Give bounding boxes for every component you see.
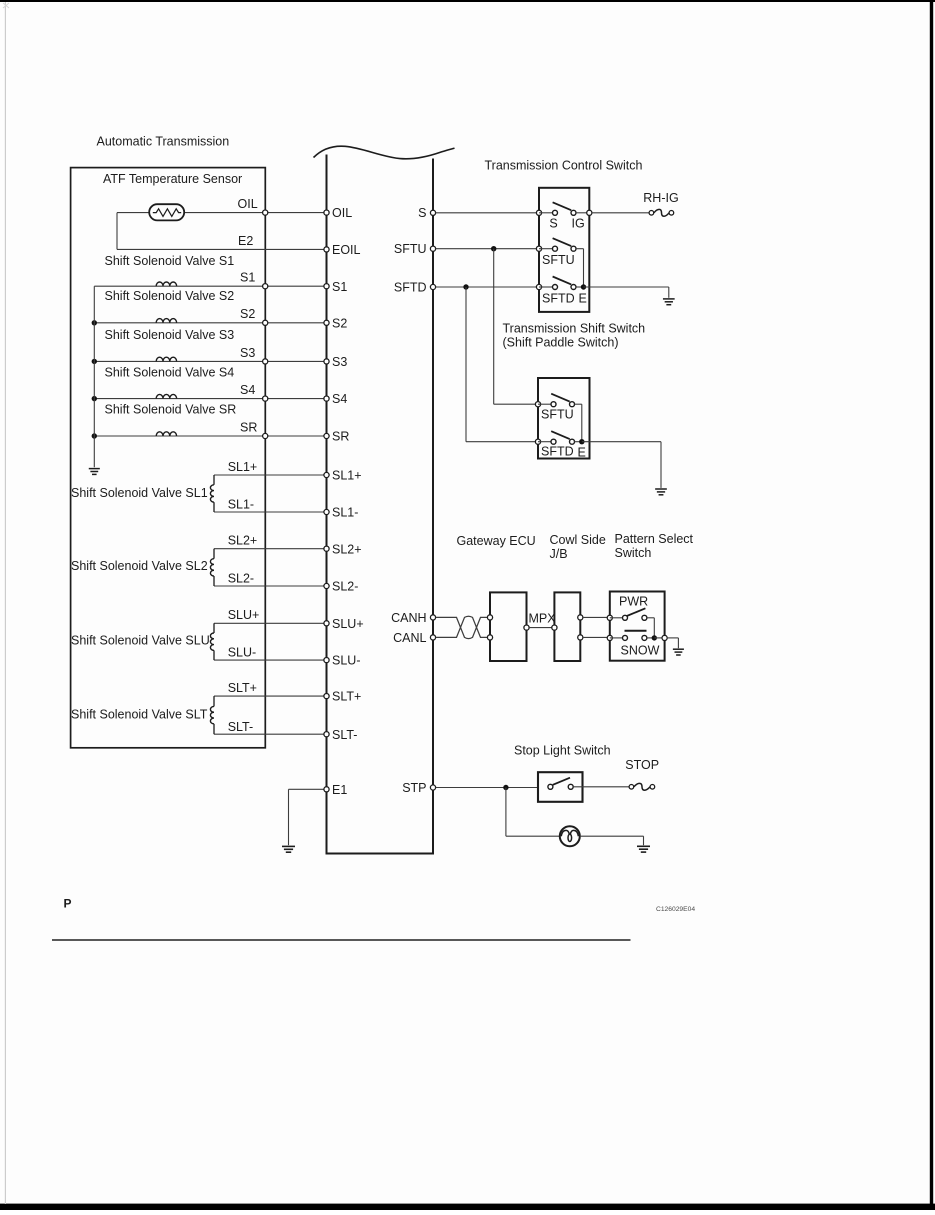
- ECM bottom boundary line: [326, 853, 435, 855]
- wire SL1-: [214, 511, 327, 513]
- wire S: [436, 212, 539, 214]
- junction on solenoid ground bus at S4: [92, 396, 97, 401]
- junction SNOW output: [647, 637, 654, 639]
- wire SLU+: [214, 622, 327, 624]
- svg-text:S: S: [549, 217, 557, 231]
- pin at shift switch SFTU row: [535, 402, 540, 407]
- wire SFTU contact to E bus (paddle): [575, 403, 582, 405]
- pin MPX at cowl J/B: [552, 625, 557, 630]
- svg-text:SFTU: SFTU: [541, 408, 574, 422]
- svg-text:Shift Solenoid Valve S4: Shift Solenoid Valve S4: [105, 366, 235, 380]
- svg-text:SL2+: SL2+: [332, 542, 362, 556]
- wire E1 to ground: [289, 788, 327, 790]
- wire OIL (thermistor to ECU): [117, 212, 150, 214]
- svg-text:Shift Solenoid Valve SR: Shift Solenoid Valve SR: [105, 403, 237, 417]
- solenoid coil S2: [156, 319, 176, 323]
- svg-text:OIL: OIL: [238, 197, 258, 211]
- svg-text:SL2-: SL2-: [332, 580, 358, 594]
- wire S2: [94, 322, 326, 324]
- svg-text:SFTU: SFTU: [542, 253, 575, 267]
- svg-text:CANL: CANL: [393, 631, 426, 645]
- svg-text:MPX: MPX: [529, 612, 557, 626]
- junction SFTU branch: [491, 246, 496, 251]
- svg-text:E1: E1: [332, 783, 347, 797]
- connector STOP: [629, 785, 634, 790]
- solenoid ground bus: [93, 286, 95, 467]
- junction STP branch: [503, 785, 508, 790]
- svg-text:SL2-: SL2-: [228, 572, 254, 586]
- pin S2 at transmission box edge: [263, 320, 268, 325]
- transmission control switch box: [539, 188, 589, 312]
- solenoid coil SLT: [213, 696, 215, 706]
- junction E in control switch: [576, 286, 584, 288]
- pin at control switch IG row: [587, 210, 592, 215]
- wire cowl to pattern switch lower: [583, 636, 610, 638]
- automatic transmission component box: [71, 168, 266, 748]
- svg-text:Transmission Shift Switch: Transmission Shift Switch: [503, 321, 646, 335]
- junction E in shift switch: [575, 441, 582, 443]
- svg-text:Automatic Transmission: Automatic Transmission: [97, 135, 230, 149]
- wire E2 return: [116, 213, 118, 250]
- svg-text:SL1+: SL1+: [228, 460, 258, 474]
- svg-text:S3: S3: [240, 346, 255, 360]
- pin SR on ECM: [324, 433, 329, 438]
- ground (stop light bulb): [637, 845, 650, 847]
- thermistor ATF temperature sensor: [149, 204, 184, 220]
- junction on solenoid ground bus at S2: [92, 320, 97, 325]
- svg-text:SLU-: SLU-: [332, 654, 360, 668]
- pin SLU+ on ECM: [324, 621, 329, 626]
- svg-text:Cowl Side: Cowl Side: [550, 533, 606, 547]
- svg-text:C126029E04: C126029E04: [656, 906, 695, 913]
- switch lever SFTD: [553, 277, 572, 285]
- wire SL1+: [214, 474, 327, 476]
- svg-text:Shift Solenoid Valve SL2: Shift Solenoid Valve SL2: [71, 559, 208, 573]
- pin OIL at transmission box edge: [263, 210, 268, 215]
- footer separator rule: [52, 939, 631, 941]
- pin SLT- on ECM: [324, 732, 329, 737]
- wire SFTD branch down to shift switch: [465, 287, 467, 442]
- twisted pair CANH: [436, 617, 490, 638]
- switch contact SNOW right: [642, 635, 647, 640]
- svg-text:S4: S4: [332, 392, 347, 406]
- ground (solenoid bus): [89, 468, 100, 470]
- wire S1: [94, 285, 326, 287]
- svg-text:STOP: STOP: [625, 758, 659, 772]
- wire to RH-IG: [592, 212, 649, 214]
- ground (shift switch E): [655, 488, 667, 490]
- switch contact SFTD right (paddle): [570, 439, 575, 444]
- svg-text:S3: S3: [332, 355, 347, 369]
- junction SFTD branch: [463, 284, 468, 289]
- junction on solenoid ground bus at S3: [92, 359, 97, 364]
- pin S3 at transmission box edge: [263, 359, 268, 364]
- svg-text:CANH: CANH: [391, 611, 426, 625]
- svg-text:SL1+: SL1+: [332, 469, 362, 483]
- wire S3: [94, 360, 326, 362]
- wire SLT+: [214, 695, 327, 697]
- svg-text:SFTD: SFTD: [541, 445, 574, 459]
- svg-text:S4: S4: [240, 383, 255, 397]
- solenoid coil SL2: [213, 549, 215, 559]
- switch contact PWR right: [642, 615, 647, 620]
- svg-text:Shift Solenoid Valve S1: Shift Solenoid Valve S1: [105, 254, 235, 268]
- pin SFTU on ECM: [430, 246, 435, 251]
- wire SLT-: [214, 733, 327, 735]
- wire SL2-: [214, 585, 327, 587]
- pin CANL at gateway: [487, 635, 492, 640]
- svg-text:IG: IG: [572, 217, 585, 231]
- pin S1 at transmission box edge: [263, 284, 268, 289]
- svg-text:EOIL: EOIL: [332, 243, 361, 257]
- pin at pattern switch SNOW row: [607, 635, 612, 640]
- svg-text:J/B: J/B: [550, 547, 568, 561]
- switch lever PWR: [627, 608, 646, 616]
- svg-text:E: E: [579, 292, 587, 306]
- svg-text:Shift Solenoid Valve S2: Shift Solenoid Valve S2: [105, 289, 235, 303]
- solenoid coil S1: [156, 282, 176, 286]
- switch contact SFTD left: [539, 286, 553, 288]
- pin at control switch S row: [536, 210, 541, 215]
- ECM torn-edge top line: [314, 146, 455, 159]
- pin at control switch SFTU row: [536, 246, 541, 251]
- pin SL1+ on ECM: [324, 472, 329, 477]
- pin E1 on ECM: [324, 787, 329, 792]
- svg-text:RH-IG: RH-IG: [643, 191, 678, 205]
- pin SR at transmission box edge: [263, 433, 268, 438]
- svg-text:Shift Solenoid Valve S3: Shift Solenoid Valve S3: [105, 328, 235, 342]
- pin S on ECM: [430, 210, 435, 215]
- svg-text:SLU+: SLU+: [228, 608, 260, 622]
- svg-text:SR: SR: [240, 420, 257, 434]
- pin CANH on ECM: [430, 615, 435, 620]
- switch lever SFTD (paddle): [551, 431, 570, 439]
- svg-text:SLT-: SLT-: [332, 728, 357, 742]
- pin at cowl J/B upper out: [578, 615, 583, 620]
- pin at control switch SFTD row: [536, 284, 541, 289]
- wire E to ground: [584, 286, 669, 288]
- pin S4 at transmission box edge: [263, 396, 268, 401]
- switch contact SFTU left: [539, 248, 553, 250]
- svg-text:Pattern Select: Pattern Select: [615, 532, 694, 546]
- pin SL2+ on ECM: [324, 546, 329, 551]
- switch contact PWR left: [610, 617, 623, 619]
- pin at cowl J/B lower out: [578, 635, 583, 640]
- wire SFTU branch down to shift switch: [493, 249, 495, 405]
- svg-text:SLU-: SLU-: [228, 646, 256, 660]
- pin S4 on ECM: [324, 396, 329, 401]
- svg-text:ATF Temperature Sensor: ATF Temperature Sensor: [103, 172, 242, 186]
- svg-text:SFTD: SFTD: [394, 280, 427, 294]
- svg-text:SLT+: SLT+: [332, 690, 361, 704]
- twisted pair CANL: [436, 616, 490, 637]
- wire SLU-: [214, 659, 327, 661]
- svg-text:SFTD: SFTD: [542, 292, 575, 306]
- pin CANL on ECM: [430, 635, 435, 640]
- pin S1 on ECM: [324, 284, 329, 289]
- pin SLU- on ECM: [324, 658, 329, 663]
- svg-text:Switch: Switch: [615, 546, 652, 560]
- switch contact SFTU right (paddle): [570, 402, 575, 407]
- switch contact IG right: [571, 210, 576, 215]
- svg-text:Shift Solenoid Valve SLT: Shift Solenoid Valve SLT: [71, 707, 208, 721]
- pin SLT+ on ECM: [324, 694, 329, 699]
- solenoid coil SLU: [213, 623, 215, 633]
- pin OIL on ECM: [324, 210, 329, 215]
- pin STP on ECM: [430, 785, 435, 790]
- switch contact S left: [539, 212, 553, 214]
- svg-text:SLU+: SLU+: [332, 617, 364, 631]
- pin at shift switch SFTD row: [535, 439, 540, 444]
- wire SR: [94, 435, 326, 437]
- svg-text:SL2+: SL2+: [228, 534, 258, 548]
- svg-text:Shift Solenoid Valve SL1: Shift Solenoid Valve SL1: [71, 486, 208, 500]
- wire to STOP connector: [573, 786, 629, 788]
- solenoid coil SR: [156, 432, 176, 436]
- stop light switch box: [538, 772, 583, 802]
- solenoid coil S4: [156, 394, 176, 398]
- switch lever S-IG: [553, 202, 572, 210]
- pin EOIL on ECM: [324, 247, 329, 252]
- pin at pattern switch PWR row: [607, 615, 612, 620]
- svg-text:Transmission Control Switch: Transmission Control Switch: [485, 158, 643, 172]
- svg-text:SL1-: SL1-: [228, 498, 254, 512]
- cowl side J/B box: [554, 592, 580, 661]
- gateway ECU box: [490, 592, 527, 661]
- svg-text:SLT-: SLT-: [228, 720, 253, 734]
- svg-text:SNOW: SNOW: [621, 643, 660, 657]
- wire SFTU: [436, 248, 539, 250]
- switch contact STP right: [568, 784, 573, 789]
- pin CANH at gateway: [487, 615, 492, 620]
- switch lever stop light switch: [553, 778, 570, 785]
- wire bulb to ground: [580, 835, 644, 837]
- svg-text:S2: S2: [332, 316, 347, 330]
- pattern select switch box: [610, 592, 665, 661]
- switch contact STP left: [548, 784, 553, 789]
- connector RH-IG: [649, 211, 654, 216]
- switch contact SNOW left: [610, 637, 623, 639]
- wire STP branch down to bulb: [505, 788, 507, 837]
- svg-text:SLT+: SLT+: [228, 681, 257, 695]
- pin S3 on ECM: [324, 359, 329, 364]
- svg-text:SL1-: SL1-: [332, 506, 358, 520]
- wire SL2+: [214, 548, 327, 550]
- svg-text:E: E: [578, 445, 586, 459]
- ECM left boundary line: [326, 155, 328, 854]
- pin pattern switch output: [654, 637, 664, 639]
- pin SL1- on ECM: [324, 509, 329, 514]
- wire SFTD: [436, 286, 539, 288]
- pin MPX out of gateway: [524, 625, 529, 630]
- solenoid coil SL1: [213, 475, 215, 485]
- svg-text:SR: SR: [332, 430, 349, 444]
- svg-text:S1: S1: [240, 271, 255, 285]
- wire PWR to snow junction: [647, 617, 654, 619]
- closed contact bar SNOW: [625, 630, 647, 632]
- ground (control switch E): [663, 298, 675, 300]
- wire STP: [436, 787, 538, 789]
- pin SFTD on ECM: [430, 284, 435, 289]
- wire cowl to pattern switch upper: [583, 616, 610, 618]
- wire SFTU contact to E bus: [576, 248, 584, 250]
- switch lever SFTU: [553, 238, 572, 246]
- switch contact SFTU left (paddle): [538, 403, 551, 405]
- ground (E1): [282, 845, 295, 847]
- solenoid coil S3: [156, 357, 176, 361]
- pin SL2- on ECM: [324, 583, 329, 588]
- switch contact SFTD left (paddle): [538, 441, 551, 443]
- svg-text:Gateway ECU: Gateway ECU: [457, 534, 536, 548]
- svg-text:P: P: [64, 897, 72, 911]
- ground (pattern select switch): [673, 648, 684, 650]
- switch contact SFTU right: [571, 246, 576, 251]
- pin S2 on ECM: [324, 320, 329, 325]
- wire pattern switch to ground: [667, 637, 678, 639]
- svg-text:STP: STP: [402, 781, 426, 795]
- svg-text:(Shift Paddle Switch): (Shift Paddle Switch): [503, 335, 619, 349]
- svg-text:PWR: PWR: [619, 594, 648, 608]
- wire S4: [94, 398, 326, 400]
- wire paddle E to ground: [582, 441, 661, 443]
- svg-text:E2: E2: [238, 234, 253, 248]
- svg-text:S1: S1: [332, 280, 347, 294]
- stop light bulb: [560, 826, 580, 846]
- wire MPX: [529, 627, 554, 629]
- transmission shift switch box: [538, 378, 590, 459]
- svg-text:Stop Light Switch: Stop Light Switch: [514, 743, 611, 757]
- svg-text:S: S: [418, 206, 426, 220]
- svg-text:S2: S2: [240, 307, 255, 321]
- svg-text:Shift Solenoid Valve SLU: Shift Solenoid Valve SLU: [71, 634, 210, 648]
- switch lever SFTU (paddle): [551, 394, 570, 402]
- svg-text:OIL: OIL: [332, 206, 352, 220]
- svg-text:SFTU: SFTU: [394, 242, 427, 256]
- junction on solenoid ground bus at SR: [92, 433, 97, 438]
- ECM right boundary line: [432, 159, 434, 854]
- switch contact SFTD right: [571, 285, 576, 290]
